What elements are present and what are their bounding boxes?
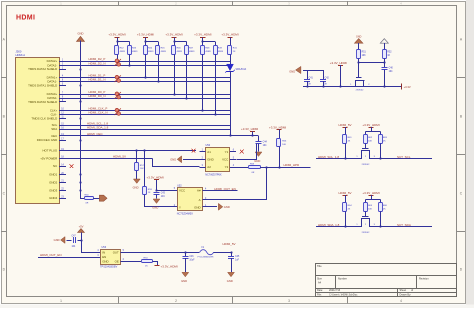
svg-text:A: A [199, 198, 201, 202]
svg-text:TMDS DATA2 SHIELD: TMDS DATA2 SHIELD [28, 67, 57, 71]
svg-text:NC7WZ07P6X: NC7WZ07P6X [205, 173, 222, 176]
U50 pin stubs [200, 151, 206, 153]
svg-text:HDMI_D1_N: HDMI_D1_N [89, 78, 106, 82]
svg-text:EN: EN [102, 255, 106, 259]
svg-text:HDMI_D2_N: HDMI_D2_N [89, 62, 106, 66]
svg-text:HDMI_OUT_EN: HDMI_OUT_EN [40, 253, 62, 257]
svg-text:SMAJ5.0A: SMAJ5.0A [236, 68, 247, 71]
wire HDMI_CLK_P [66, 110, 230, 112]
capacitor C46 [185, 252, 187, 256]
svg-text:49R9: 49R9 [161, 51, 167, 53]
op IC U52 body [178, 188, 203, 211]
shield bus vertical [80, 40, 82, 198]
svg-text:HDMI_D0_N: HDMI_D0_N [89, 94, 106, 98]
svg-text:Number: Number [338, 277, 347, 280]
ground below R57 [133, 179, 140, 183]
wire HDMI_SCL_1.8 left [66, 125, 230, 127]
resistor R45 [158, 42, 160, 46]
svg-text:10K: 10K [362, 55, 367, 57]
svg-text:GND: GND [224, 205, 230, 209]
svg-text:+3.3V: +3.3V [404, 85, 411, 89]
resistor R44 [146, 41, 159, 43]
svg-text:C44: C44 [263, 142, 268, 144]
svg-text:GND3: GND3 [49, 188, 57, 192]
svg-text:10uF: 10uF [189, 260, 195, 262]
svg-text:+3.3V_HDMI: +3.3V_HDMI [221, 33, 238, 37]
svg-text:GND: GND [170, 157, 176, 161]
svg-text:HDMI_CEC: HDMI_CEC [87, 132, 104, 136]
svg-text:49R9: 49R9 [189, 51, 195, 53]
ESD diff-pair directive 1 [115, 59, 121, 66]
resistor R43 [129, 42, 131, 46]
capacitor C44 [258, 136, 260, 142]
svg-text:+5V POWER: +5V POWER [40, 156, 57, 160]
svg-text:10K: 10K [282, 144, 286, 146]
connector pin stubs and numbers [59, 61, 66, 63]
transistor Q50 pass fet [358, 62, 360, 78]
zone ticks [118, 1, 120, 5]
svg-text:NC7SZ04M5X: NC7SZ04M5X [177, 213, 193, 216]
svg-text:TMDS DATA0 SHIELD: TMDS DATA0 SHIELD [28, 100, 57, 104]
U52 pin stubs [172, 190, 178, 192]
capacitor C47 [77, 240, 81, 242]
svg-text:+3.3V_HDMI: +3.3V_HDMI [362, 123, 379, 127]
port bar +3.3V right [401, 83, 403, 89]
no-ERC cross on NC pin [70, 164, 74, 168]
U53 OUT wire [121, 252, 200, 254]
svg-text:OUT: OUT [113, 250, 119, 254]
svg-text:0R: 0R [252, 172, 255, 174]
resistor R57 [136, 151, 138, 163]
svg-text:HDMI_5V: HDMI_5V [223, 242, 236, 246]
title block [316, 264, 457, 297]
no-ERC cross U50 Y1 [240, 150, 244, 154]
resistor R51 [357, 50, 361, 59]
capacitor C40 [384, 62, 386, 67]
wire F1 to HDMI_5V [214, 252, 231, 254]
main HPD wire [303, 86, 401, 88]
wire HDMI_D2_N [66, 65, 230, 67]
svg-text:4: 4 [400, 299, 402, 303]
wire HDMI_CLK_N [66, 114, 230, 116]
wire SCT_SCL [375, 158, 433, 160]
svg-text:HDMI_HPD: HDMI_HPD [284, 163, 301, 167]
ground at U50 GND pin [183, 159, 200, 161]
resistor R54 [142, 260, 153, 263]
svg-text:2021/7/13: 2021/7/13 [329, 289, 341, 292]
svg-text:GND: GND [289, 70, 295, 74]
svg-text:GND4: GND4 [49, 196, 57, 200]
resistor R66 [380, 199, 382, 202]
svg-text:GND: GND [78, 31, 84, 35]
svg-text:Revision: Revision [419, 277, 429, 280]
svg-text:Y: Y [179, 205, 181, 209]
shield earth port arrow [99, 195, 107, 201]
svg-text:C:\Users\..\HDMI.SchDoc: C:\Users\..\HDMI.SchDoc [329, 293, 358, 296]
svg-text:HDMI_CLK_N: HDMI_CLK_N [89, 111, 108, 115]
wire to U52 VCC [157, 190, 172, 192]
svg-text:2N7002: 2N7002 [356, 90, 364, 92]
resistor R46 [174, 41, 187, 43]
resistor R49 [215, 42, 217, 46]
svg-text:HDMI: HDMI [16, 15, 35, 22]
branch to U52 A [209, 168, 267, 200]
wire HDMI_OUT_EN to U53 EN [38, 257, 101, 259]
no-ERC cross on HPD wire [192, 149, 196, 153]
wire +5V POWER row [66, 158, 153, 160]
svg-text:HDMI_SCL_1.8: HDMI_SCL_1.8 [318, 155, 339, 159]
capacitor C43 [154, 192, 160, 194]
resistor R47 [186, 42, 188, 46]
svg-text:49R9: 49R9 [205, 51, 211, 53]
svg-text:2: 2 [175, 299, 177, 303]
svg-text:C42: C42 [325, 78, 330, 80]
svg-text:C40: C40 [389, 67, 394, 69]
ESD diff-pair directive 4 [115, 108, 121, 115]
resistor R61 [343, 135, 347, 144]
svg-text:SDA: SDA [51, 127, 57, 131]
ground below C44 [255, 152, 262, 156]
svg-text:49R9: 49R9 [177, 51, 183, 53]
wire HDMI_SDA_1.8 left [66, 129, 230, 131]
ground left of C47 [61, 237, 65, 244]
wire HDMI_D1_N [66, 81, 230, 83]
ESD diff-pair directive 3 [115, 92, 121, 99]
wire HOT PLUG row [66, 150, 196, 152]
svg-text:C46: C46 [189, 256, 194, 258]
wire R54 to 3.3V [153, 262, 158, 266]
svg-text:GND2: GND2 [49, 180, 57, 184]
svg-text:GND: GND [152, 205, 158, 209]
ground below C46 [182, 272, 189, 276]
svg-text:C43: C43 [161, 193, 166, 195]
TVS diode D50 [227, 64, 234, 70]
svg-text:SCT_SCL: SCT_SCL [397, 155, 411, 159]
hollow port arrow [380, 39, 388, 44]
ground below C45 [228, 272, 235, 276]
svg-text:DDC/CEC GND: DDC/CEC GND [37, 138, 57, 142]
power switch U53 body [101, 250, 121, 265]
svg-text:HDMI_5V: HDMI_5V [113, 154, 126, 158]
svg-text:C41: C41 [309, 78, 314, 80]
resistor R48 [203, 41, 215, 43]
svg-text:SCT_SDA: SCT_SDA [397, 223, 411, 227]
op IC U50 body [206, 148, 230, 172]
wire HDMI_D0_N [66, 98, 230, 100]
svg-text:10K: 10K [140, 168, 144, 170]
svg-text:GND: GND [227, 279, 233, 283]
svg-text:NC: NC [53, 164, 57, 168]
resistor R62 [365, 131, 367, 134]
wire +5V to U53 IN [81, 252, 101, 254]
svg-text:Sheet: Sheet [400, 289, 407, 292]
resistor R64 [343, 203, 347, 212]
svg-text:+3.3V_HDMI: +3.3V_HDMI [165, 33, 182, 37]
wire SCT_SDA [375, 226, 433, 228]
wire HDMI_SCL_1.8 [316, 158, 357, 160]
svg-text:IN: IN [102, 250, 105, 254]
svg-text:HDMI_SDA_1.8: HDMI_SDA_1.8 [318, 223, 340, 227]
wire HDMI_CEC [66, 135, 259, 137]
svg-text:Y2: Y2 [225, 165, 229, 169]
resistor R65 [365, 199, 367, 202]
svg-text:Date:: Date: [317, 289, 323, 292]
svg-text:10K: 10K [368, 208, 372, 210]
ground at U52 GND pin [209, 206, 217, 208]
svg-text:Drawn By:: Drawn By: [400, 293, 412, 296]
svg-text:PTC1206M050WR: PTC1206M050WR [198, 257, 215, 259]
svg-text:+3.3V_HDMI: +3.3V_HDMI [161, 265, 178, 269]
svg-text:49R9: 49R9 [120, 51, 126, 53]
transistor Q51 level shifter [362, 148, 369, 150]
wire HDMI_HPD [260, 167, 311, 169]
svg-text:TMDS CLK SHIELD: TMDS CLK SHIELD [31, 116, 57, 120]
resistor R52 [383, 50, 387, 59]
svg-text:+3.3V_HDMI: +3.3V_HDMI [147, 176, 164, 180]
ground arrow left [296, 66, 301, 73]
svg-text:10K: 10K [368, 140, 372, 142]
svg-text:1: 1 [60, 299, 62, 303]
svg-text:A2: A2 [207, 165, 211, 169]
svg-text:0R: 0R [86, 203, 89, 205]
svg-text:GND: GND [181, 279, 187, 283]
svg-text:+3.3V_HDMI: +3.3V_HDMI [269, 125, 286, 129]
transistor Q52 level shifter [362, 216, 369, 218]
wire HDMI_SDA_1.8 [316, 226, 357, 228]
U50 VCC wire to 3.3V node [237, 144, 257, 160]
svg-text:VCC: VCC [179, 189, 185, 193]
svg-text:A1: A1 [207, 150, 211, 154]
svg-text:49R9: 49R9 [132, 51, 138, 53]
resistor R56 [277, 139, 281, 147]
svg-text:2N7002: 2N7002 [362, 232, 370, 234]
svg-text:2N7002: 2N7002 [362, 164, 370, 166]
wire HDMI_D2_P [66, 61, 230, 63]
svg-text:A#: A# [197, 189, 201, 193]
svg-text:GND: GND [102, 260, 108, 264]
capacitor C41 [307, 70, 309, 79]
svg-text:HDMI_OUT_EN: HDMI_OUT_EN [214, 187, 236, 191]
ground below C43 [153, 199, 160, 203]
svg-text:GND: GND [207, 158, 213, 162]
connector J500 body [16, 58, 60, 204]
svg-text:OE: OE [115, 260, 119, 264]
capacitor C42 [323, 70, 325, 79]
svg-text:1K: 1K [387, 55, 390, 57]
svg-text:R52: R52 [387, 52, 392, 54]
svg-text:1uF: 1uF [235, 260, 240, 262]
U53 OE wire to R54 [121, 261, 141, 263]
svg-text:GND: GND [356, 35, 362, 38]
svg-text:TMDS DATA1 SHIELD: TMDS DATA1 SHIELD [28, 83, 57, 87]
svg-text:U53: U53 [102, 246, 107, 249]
gnd rail [303, 70, 323, 72]
svg-text:+3.3V_HDMI: +3.3V_HDMI [241, 127, 258, 131]
svg-text:Title: Title [317, 265, 322, 268]
svg-text:HDMI_5V: HDMI_5V [338, 191, 351, 195]
resistor R60 [80, 198, 84, 200]
svg-text:3: 3 [288, 299, 290, 303]
svg-text:+3.3V_HDMI: +3.3V_HDMI [330, 61, 347, 65]
resistor R42 [117, 41, 130, 43]
capacitor C45 [231, 252, 233, 256]
ESD diff-pair directive 2 [115, 75, 121, 82]
svg-text:GND: GND [133, 186, 139, 190]
gate node wire [359, 62, 385, 64]
resistor R59 [144, 151, 146, 187]
wire 5V to U50 A2 [153, 159, 200, 167]
svg-text:J500: J500 [16, 50, 22, 54]
svg-text:GND: GND [54, 238, 60, 242]
wire HDMI_OUT_EN from U52 [209, 190, 238, 192]
svg-text:U50: U50 [206, 144, 211, 147]
svg-text:+3.3V_HDMI: +3.3V_HDMI [194, 33, 211, 37]
svg-text:GND: GND [194, 205, 200, 209]
wire HDMI_D0_P [66, 94, 230, 96]
svg-text:HDMI_SDA_1.8: HDMI_SDA_1.8 [87, 125, 109, 129]
svg-text:File:: File: [317, 293, 322, 296]
svg-text:HDMI-A: HDMI-A [16, 53, 26, 57]
svg-text:+5V: +5V [79, 224, 84, 228]
svg-text:GND1: GND1 [49, 173, 57, 177]
resistor R58 [236, 167, 248, 169]
svg-text:R51: R51 [362, 52, 367, 54]
svg-text:of: of [411, 289, 413, 292]
svg-text:+3.3V_HDMI: +3.3V_HDMI [137, 33, 154, 37]
svg-text:Y1: Y1 [225, 150, 229, 154]
svg-text:+3.3V_HDMI: +3.3V_HDMI [362, 191, 379, 195]
svg-text:49R9: 49R9 [148, 51, 154, 53]
svg-text:+3.3V_HDMI: +3.3V_HDMI [108, 33, 125, 37]
svg-text:U52: U52 [177, 184, 182, 187]
svg-text:49R9: 49R9 [218, 51, 224, 53]
wire HDMI_D1_P [66, 77, 230, 79]
svg-text:Size: Size [317, 277, 322, 280]
svg-text:VCC: VCC [222, 158, 228, 162]
svg-text:HOT PLUG: HOT PLUG [42, 149, 57, 153]
wire TVS to CEC [230, 71, 232, 136]
resistor R63 [380, 131, 382, 134]
svg-text:TPS2041BDBV: TPS2041BDBV [100, 266, 118, 269]
svg-text:HDMI_5V: HDMI_5V [338, 123, 351, 127]
svg-text:C45: C45 [235, 256, 240, 258]
resistor R41 [230, 42, 232, 46]
